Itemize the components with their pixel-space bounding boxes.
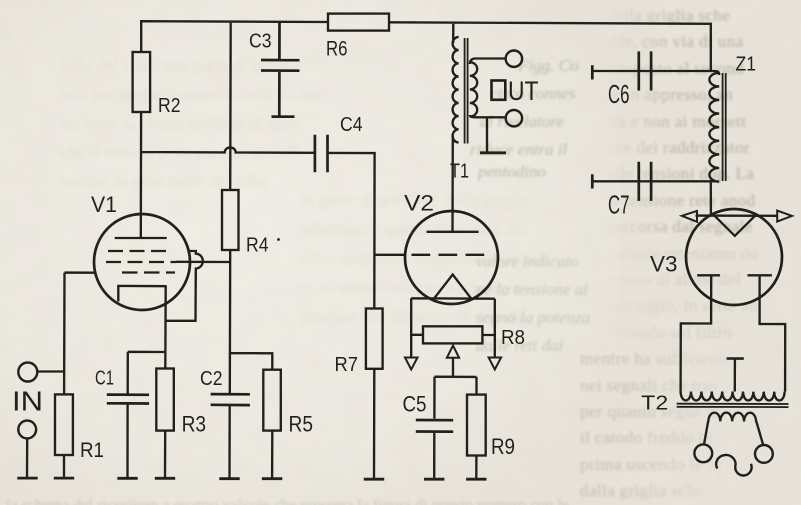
svg-text:C6: C6 (608, 79, 630, 109)
svg-text:V1: V1 (91, 192, 117, 217)
svg-text:C4: C4 (340, 114, 363, 136)
svg-text:C7: C7 (608, 190, 630, 220)
svg-text:T1: T1 (450, 161, 469, 183)
svg-text:UT: UT (508, 76, 539, 106)
svg-text:R4: R4 (246, 235, 269, 257)
svg-text:R5: R5 (289, 412, 314, 437)
svg-text:R3: R3 (182, 412, 207, 437)
svg-text:R7: R7 (335, 354, 359, 376)
svg-text:R8: R8 (501, 327, 525, 349)
svg-text:T2: T2 (641, 393, 668, 415)
svg-text:C2: C2 (200, 368, 223, 390)
svg-text:IN: IN (12, 386, 43, 417)
svg-text:C3: C3 (249, 31, 272, 53)
svg-text:C1: C1 (95, 368, 114, 390)
svg-text:V3: V3 (650, 252, 678, 277)
svg-text:C5: C5 (403, 391, 427, 416)
svg-text:R6: R6 (326, 36, 348, 60)
svg-text:Z1: Z1 (736, 54, 757, 76)
svg-text:R1: R1 (80, 438, 104, 462)
svg-text:R2: R2 (158, 95, 181, 117)
svg-text:V2: V2 (404, 191, 434, 216)
svg-text:R9: R9 (491, 434, 515, 459)
